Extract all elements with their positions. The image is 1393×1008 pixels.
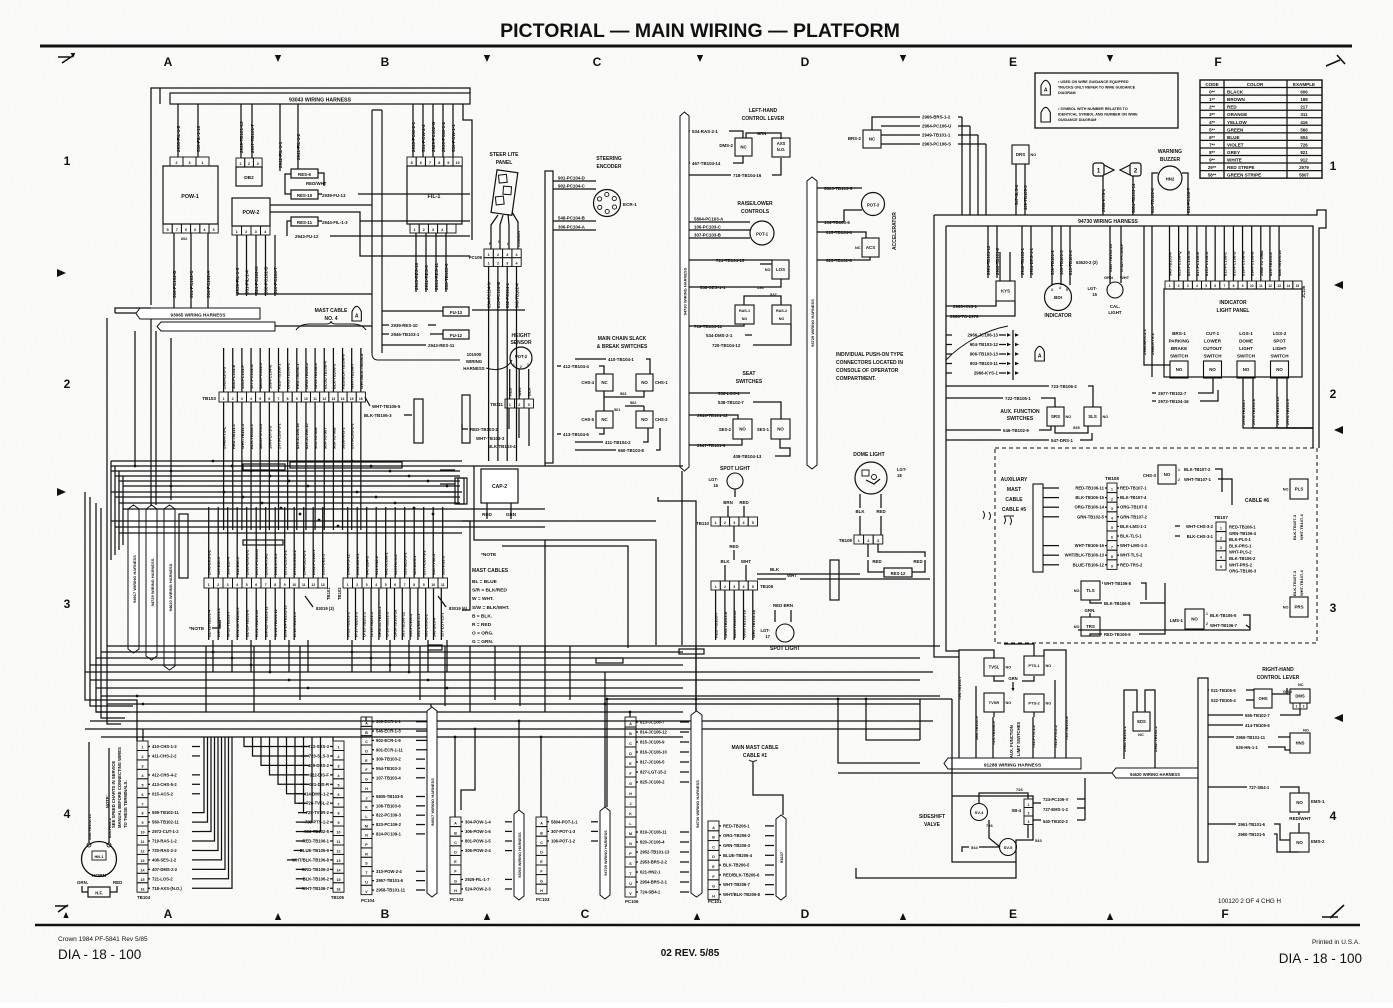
svg-text:CONSOLE OF OPERATOR: CONSOLE OF OPERATOR: [836, 368, 899, 374]
svg-text:H: H: [365, 787, 368, 791]
svg-text:WHT/BLK-TB106-8: WHT/BLK-TB106-8: [292, 857, 330, 862]
svg-text:827-LGT-15-2: 827-LGT-15-2: [640, 770, 667, 775]
svg-text:826-HNS-2: 826-HNS-2: [107, 817, 112, 838]
svg-text:8: 8: [338, 812, 340, 816]
switch PTS-1: [1024, 656, 1044, 675]
svg-text:15: 15: [337, 878, 341, 882]
svg-text:2: 2: [232, 397, 234, 401]
svg-text:GREEN: GREEN: [1227, 127, 1244, 132]
svg-text:2929-FIL-1-7: 2929-FIL-1-7: [465, 877, 490, 882]
svg-text:8: 8: [1111, 555, 1113, 559]
svg-text:Crown 1984 PF-5841 Rev 5/85: Crown 1984 PF-5841 Rev 5/85: [58, 936, 148, 943]
svg-text:9: 9: [338, 821, 340, 825]
svg-text:11: 11: [1259, 284, 1263, 288]
svg-text:3: 3: [432, 228, 434, 232]
svg-text:107-PC104-G: 107-PC104-G: [249, 364, 254, 389]
capacitor CAP-2: [481, 469, 518, 503]
svg-text:2977-TB102-7: 2977-TB102-7: [1158, 391, 1187, 396]
svg-text:NO: NO: [1276, 367, 1283, 372]
svg-text:10: 10: [337, 831, 341, 835]
svg-text:2961-TB101-12: 2961-TB101-12: [986, 245, 991, 275]
svg-text:2952-TB101-13: 2952-TB101-13: [640, 850, 670, 855]
svg-text:NO: NO: [739, 427, 746, 432]
svg-text:12: 12: [141, 850, 145, 854]
svg-text:9: 9: [1242, 284, 1244, 288]
svg-text:5805-TB103-5: 5805-TB103-5: [376, 794, 404, 799]
svg-text:16: 16: [337, 887, 341, 891]
harness 93637 vertical bar: [776, 815, 786, 900]
svg-text:RED-TRS-2: RED-TRS-2: [1120, 562, 1143, 567]
svg-text:RED-TB103-2: RED-TB103-2: [470, 427, 498, 432]
svg-text:NO: NO: [1006, 701, 1012, 705]
svg-text:B/W-24-TB201-13: B/W-24-TB201-13: [283, 604, 288, 637]
harness bar 94730 vertical: [680, 112, 689, 471]
svg-text:524-PC102-H: 524-PC102-H: [254, 266, 259, 294]
svg-text:2: 2: [724, 585, 726, 589]
svg-text:2: 2: [64, 377, 71, 391]
svg-text:MANUAL BEFORE CONNECTING WIRES: MANUAL BEFORE CONNECTING WIRES: [117, 747, 122, 828]
svg-text:548-PC104-B: 548-PC104-B: [558, 216, 585, 221]
svg-text:BLUE-TB106-9: BLUE-TB106-9: [300, 848, 330, 853]
svg-text:WHT-TB107-1: WHT-TB107-1: [1184, 477, 1212, 482]
inline capsule connectors on bus: [428, 645, 442, 650]
svg-text:94729 WIRING HARNESS: 94729 WIRING HARNESS: [604, 830, 608, 876]
svg-text:813-PC106-A: 813-PC106-A: [1204, 251, 1209, 276]
switch PTS-2: [1024, 694, 1044, 712]
terminal strip TB106: [711, 581, 720, 590]
svg-text:O-10-TB201-2: O-10-TB201-2: [361, 611, 366, 637]
svg-text:409-DRS-2: 409-DRS-2: [308, 763, 330, 768]
svg-text:NO: NO: [1046, 702, 1052, 706]
svg-text:NO: NO: [1176, 367, 1183, 372]
svg-text:NO: NO: [1283, 606, 1289, 610]
svg-text:YELLOW: YELLOW: [1227, 120, 1247, 125]
svg-text:CUTOUT: CUTOUT: [1203, 346, 1222, 351]
svg-text:2939-DB2-1: 2939-DB2-1: [321, 553, 326, 575]
svg-text:563: 563: [620, 392, 626, 396]
svg-text:R = RED: R = RED: [472, 622, 492, 628]
svg-text:VIOLET: VIOLET: [1227, 142, 1244, 147]
switch OHS: [1254, 689, 1272, 708]
svg-text:CONNECTORS LOCATED IN: CONNECTORS LOCATED IN: [836, 360, 903, 366]
svg-text:CABLE #6: CABLE #6: [1245, 498, 1269, 504]
POW-2 wires bottom: [236, 235, 238, 296]
svg-text:TLS: TLS: [1086, 588, 1094, 593]
svg-text:ORG-TB106-2: ORG-TB106-2: [286, 362, 291, 389]
svg-text:547-DRS-1: 547-DRS-1: [1051, 438, 1074, 443]
svg-text:DIA - 18 - 100: DIA - 18 - 100: [1279, 951, 1362, 966]
svg-text:GRN-11-TB201-2: GRN-11-TB201-2: [377, 606, 382, 637]
svg-text:BLK-TB106-5: BLK-TB106-5: [1210, 613, 1237, 618]
switch KYS: [996, 281, 1015, 301]
svg-text:RED-TB106-9: RED-TB106-9: [1104, 632, 1131, 637]
svg-text:H: H: [629, 792, 632, 796]
guidance triangle A mid: [1035, 346, 1044, 361]
svg-text:106-PC103-C: 106-PC103-C: [694, 225, 722, 230]
svg-text:PTS-2: PTS-2: [1028, 701, 1040, 706]
switch PLS: [1290, 479, 1308, 499]
svg-text:7: 7: [176, 228, 178, 232]
svg-text:B: B: [381, 907, 390, 921]
svg-text:309-ECR-1-1: 309-ECR-1-1: [376, 719, 401, 724]
pennant flag 2: [1130, 163, 1141, 176]
svg-text:94730 WIRING HARNESS: 94730 WIRING HARNESS: [682, 267, 687, 315]
harness bar 94729 vertical: [807, 177, 817, 469]
svg-text:5: 5: [1066, 288, 1068, 292]
svg-text:559-TB102-11: 559-TB102-11: [152, 810, 179, 815]
svg-text:1: 1: [1220, 527, 1222, 531]
svg-text:WIRING: WIRING: [466, 359, 483, 364]
svg-text:822-PC109-3: 822-PC109-3: [376, 813, 402, 818]
indicator panel wires: [1169, 226, 1171, 281]
wire color code table: [1200, 80, 1322, 178]
svg-text:2: 2: [867, 539, 869, 543]
svg-text:AXS: AXS: [777, 141, 786, 146]
svg-text:NC: NC: [601, 417, 608, 422]
svg-text:5: 5: [259, 397, 261, 401]
svg-text:BRS-1: BRS-1: [1172, 331, 1186, 336]
svg-text:BLACK: BLACK: [1227, 90, 1244, 95]
svg-text:29**: 29**: [1208, 165, 1217, 170]
svg-text:2949-TB101-1: 2949-TB101-1: [922, 133, 951, 138]
svg-text:2: 2: [217, 583, 219, 587]
svg-text:RED BRN: RED BRN: [773, 603, 793, 608]
svg-text:629-JC106-14: 629-JC106-14: [295, 423, 300, 449]
svg-text:BLUE: BLUE: [1227, 135, 1240, 140]
svg-text:1: 1: [1206, 612, 1208, 616]
svg-text:2964-PC106-U: 2964-PC106-U: [922, 124, 951, 129]
svg-text:539-TB101-2: 539-TB101-2: [1050, 250, 1055, 275]
svg-text:904-TO-907: 904-TO-907: [322, 427, 327, 449]
svg-text:NC: NC: [869, 137, 876, 142]
svg-text:*NOTE: *NOTE: [481, 552, 497, 558]
svg-text:3: 3: [1330, 601, 1337, 615]
svg-text:TB106: TB106: [760, 584, 774, 589]
svg-text:557-LGT-15-1: 557-LGT-15-1: [439, 612, 444, 637]
svg-text:CAP-2: CAP-2: [492, 484, 507, 490]
svg-text:602: 602: [181, 237, 187, 241]
svg-text:& BREAK SWITCHES: & BREAK SWITCHES: [597, 344, 648, 350]
svg-text:731-PTS-2-2: 731-PTS-2-2: [1053, 724, 1058, 748]
svg-text:531-FIL-1-4: 531-FIL-1-4: [245, 270, 250, 294]
svg-text:C: C: [593, 55, 602, 69]
svg-text:HNS: HNS: [1296, 741, 1305, 746]
svg-text:EMS-1: EMS-1: [1311, 799, 1325, 804]
svg-text:BLK-TB106-2: BLK-TB106-2: [303, 876, 330, 881]
svg-text:94620 WIRING HARNESS: 94620 WIRING HARNESS: [1130, 772, 1180, 777]
corner mark bottom-right: [1322, 905, 1344, 918]
svg-text:STEER LITE: STEER LITE: [490, 152, 520, 158]
svg-text:NC: NC: [1138, 733, 1144, 737]
svg-text:G: G: [365, 778, 368, 782]
fuse FU-13: [443, 307, 469, 316]
svg-text:825-JC106-2: 825-JC106-2: [640, 780, 665, 785]
DB2 wires: [240, 104, 242, 158]
svg-text:015-ACS-2: 015-ACS-2: [152, 791, 174, 796]
switch CHS-2: [636, 411, 653, 428]
svg-text:PTS-1: PTS-1: [1028, 663, 1040, 668]
svg-text:TB101: TB101: [326, 587, 331, 600]
svg-text:SWITCH: SWITCH: [1170, 354, 1189, 359]
svg-text:63620-2 (2): 63620-2 (2): [1076, 260, 1098, 265]
svg-text:LOWER: LOWER: [1204, 339, 1222, 344]
svg-text:2979-LGS-2-1: 2979-LGS-2-1: [350, 423, 355, 449]
svg-text:COMMON: COMMON: [517, 231, 521, 247]
grid tick arrows top: [275, 55, 281, 62]
svg-text:C: C: [629, 742, 632, 746]
svg-text:CAL.: CAL.: [1110, 304, 1120, 309]
harness 93043: [170, 93, 470, 104]
svg-text:2962-PC106-V: 2962-PC106-V: [311, 549, 316, 575]
svg-text:NC: NC: [1298, 683, 1304, 687]
svg-text:801-POW-1-5: 801-POW-1-5: [465, 839, 491, 844]
svg-text:SRS: SRS: [1051, 414, 1060, 419]
svg-text:10: 10: [304, 397, 308, 401]
svg-text:DOME LIGHT: DOME LIGHT: [853, 452, 884, 458]
svg-text:H: H: [540, 889, 543, 893]
svg-text:ORG-TB106-3: ORG-TB106-3: [302, 867, 330, 872]
svg-text:3: 3: [64, 597, 71, 611]
svg-text:416: 416: [1300, 120, 1308, 125]
svg-text:GRN-TB206-3: GRN-TB206-3: [313, 362, 318, 389]
svg-text:1: 1: [1296, 705, 1298, 709]
svg-text:RAS-2: RAS-2: [776, 309, 787, 313]
connector bar right of TB103: [414, 399, 423, 443]
svg-text:5: 5: [385, 583, 387, 587]
svg-text:DMS-2: DMS-2: [719, 143, 733, 148]
svg-text:2972-TB104-16: 2972-TB104-16: [1158, 399, 1189, 404]
svg-text:BLK-PLS-1: BLK-PLS-1: [1229, 537, 1252, 542]
svg-text:2946-FU-12: 2946-FU-12: [346, 553, 351, 575]
svg-text:641-TB102-4: 641-TB102-4: [1150, 188, 1155, 213]
switch SES-1: [771, 419, 790, 439]
svg-text:903-TB103-11: 903-TB103-11: [970, 361, 999, 366]
svg-text:604: 604: [1300, 135, 1308, 140]
svg-text:ECR-1: ECR-1: [623, 202, 637, 207]
svg-text:2946-TB103-1: 2946-TB103-1: [1020, 247, 1025, 275]
svg-text:GRN-TB107-2: GRN-TB107-2: [1120, 514, 1148, 519]
svg-text:5804-POT-1-1: 5804-POT-1-1: [551, 819, 578, 824]
trunk elbow: [371, 300, 373, 353]
svg-text:2974-LGS-2-2: 2974-LGS-2-2: [292, 549, 297, 575]
guidance triangle A mast: [352, 306, 361, 321]
small bars left of CAP-2: [455, 478, 464, 504]
svg-text:5: 5: [1111, 526, 1113, 530]
svg-text:M: M: [365, 824, 368, 828]
svg-text:RED/WHT: RED/WHT: [1289, 816, 1311, 821]
harness 94729 vertical bar bottom: [600, 807, 610, 899]
svg-text:3: 3: [227, 583, 229, 587]
svg-text:GRN.: GRN.: [1085, 608, 1096, 613]
svg-text:DMS: DMS: [1295, 694, 1305, 699]
svg-text:SEAT: SEAT: [743, 371, 756, 377]
svg-text:621-HN2-1: 621-HN2-1: [640, 870, 661, 875]
svg-text:• SYMBOL WITH NUMBER RELATES: • SYMBOL WITH NUMBER RELATES TO: [1058, 107, 1128, 111]
svg-text:727-EMS-1-2: 727-EMS-1-2: [1043, 807, 1069, 812]
svg-text:HARNESS: HARNESS: [463, 366, 485, 371]
margin arrows: [57, 269, 66, 277]
svg-text:3: 3: [1220, 546, 1222, 550]
svg-text:WHT-TB103-3: WHT-TB103-3: [476, 436, 505, 441]
svg-text:G: G: [629, 782, 632, 786]
grid tick arrows bottom: [275, 913, 281, 920]
svg-text:• USED ON WIRE GUIDANCE EQUIP: • USED ON WIRE GUIDANCE EQUIPPED: [1058, 80, 1129, 84]
svg-text:9: 9: [423, 583, 425, 587]
svg-text:634-PC104-N: 634-PC104-N: [487, 282, 492, 308]
svg-text:533-TB103-6: 533-TB103-6: [444, 263, 449, 290]
svg-text:RED: RED: [508, 387, 513, 396]
svg-text:4: 4: [338, 774, 340, 778]
svg-text:NO: NO: [1031, 153, 1037, 157]
svg-text:540-TB102-3: 540-TB102-3: [1043, 819, 1068, 824]
svg-text:E: E: [1009, 907, 1017, 921]
svg-text:641-HN2-2: 641-HN2-2: [374, 555, 379, 575]
potentiometer POT-3: [862, 193, 885, 216]
harness bar blank below: [157, 322, 275, 331]
svg-text:HORN: HORN: [92, 873, 107, 879]
svg-text:HN2: HN2: [1166, 177, 1175, 182]
svg-text:SIDESHIFT: SIDESHIFT: [919, 814, 945, 820]
svg-text:2: 2: [1303, 705, 1305, 709]
svg-text:LGS-2: LGS-2: [1273, 331, 1287, 336]
svg-text:2946-KYS-L: 2946-KYS-L: [222, 426, 227, 449]
svg-text:2: 2: [142, 755, 144, 759]
svg-text:NO: NO: [1074, 589, 1080, 593]
svg-text:BLK: BLK: [770, 567, 780, 572]
svg-text:RED-TB206-1: RED-TB206-1: [723, 823, 750, 828]
svg-text:726: 726: [986, 823, 993, 828]
switch TVSL: [984, 658, 1004, 676]
connector PC102: [450, 817, 461, 827]
svg-text:7: 7: [1223, 284, 1225, 288]
svg-text:O = ORG.: O = ORG.: [472, 631, 493, 637]
svg-text:7: 7: [278, 397, 280, 401]
svg-text:94730 WIRING HARNESS: 94730 WIRING HARNESS: [695, 780, 700, 828]
svg-text:NO: NO: [1103, 415, 1109, 419]
svg-text:NO: NO: [1046, 664, 1052, 668]
svg-text:2: 2: [497, 253, 499, 257]
svg-text:14: 14: [337, 868, 341, 872]
svg-text:BROWN: BROWN: [1227, 97, 1246, 102]
svg-text:2: 2: [1178, 284, 1180, 288]
POW-1 wires bottom: [173, 233, 175, 308]
svg-text:OHS: OHS: [1258, 696, 1267, 701]
svg-text:1: 1: [208, 583, 210, 587]
svg-text:726: 726: [1300, 142, 1308, 147]
horn riser wires: [88, 742, 90, 843]
svg-text:BRAKE: BRAKE: [1171, 346, 1187, 351]
svg-text:NO: NO: [1074, 625, 1080, 629]
svg-text:INDICATOR: INDICATOR: [1219, 300, 1247, 306]
svg-text:1: 1: [488, 261, 490, 265]
svg-text:EXAMPLE: EXAMPLE: [1293, 82, 1315, 87]
svg-text:1: 1: [347, 583, 349, 587]
svg-text:3: 3: [213, 228, 215, 232]
svg-text:POW-2: POW-2: [243, 210, 260, 216]
svg-text:5804-TB103-14: 5804-TB103-14: [1131, 183, 1136, 213]
svg-text:562: 562: [630, 401, 636, 405]
svg-text:SB-4: SB-4: [1011, 808, 1021, 813]
horn HN-1: [82, 842, 117, 877]
svg-text:309-TB103-2: 309-TB103-2: [376, 757, 401, 762]
switch HNS: [1290, 733, 1310, 753]
svg-text:TB105: TB105: [331, 895, 345, 900]
svg-text:93637: 93637: [779, 851, 784, 863]
svg-text:PICTORIAL — MAIN WIRING — PLAT: PICTORIAL — MAIN WIRING — PLATFORM: [500, 20, 900, 42]
svg-text:NC: NC: [855, 246, 861, 250]
svg-text:D: D: [801, 907, 810, 921]
resistor RES-11: [291, 217, 318, 226]
svg-text:2: 2: [338, 755, 340, 759]
svg-text:BLUE-TB206-4: BLUE-TB206-4: [322, 360, 327, 389]
power panel POW-2: [232, 198, 270, 226]
svg-text:B: B: [454, 831, 457, 835]
svg-text:022-DIS-F: 022-DIS-F: [310, 772, 330, 777]
svg-text:LIMIT SWITCHES: LIMIT SWITCHES: [1016, 722, 1021, 756]
svg-text:NO: NO: [765, 268, 771, 272]
svg-text:8: 8: [411, 161, 413, 165]
svg-text:PC104: PC104: [361, 898, 375, 903]
svg-text:RES-6: RES-6: [298, 172, 311, 177]
svg-text:718-TB104-16: 718-TB104-16: [733, 173, 762, 178]
svg-text:PARKING: PARKING: [1169, 339, 1190, 344]
svg-text:11: 11: [337, 840, 341, 844]
routing wires around note block: [474, 466, 545, 652]
svg-text:C: C: [712, 845, 715, 849]
svg-text:94730 WIRING HARNESS: 94730 WIRING HARNESS: [1078, 219, 1138, 225]
svg-text:EMS-2: EMS-2: [1311, 839, 1325, 844]
TB101 wires bottom rotated: [208, 588, 210, 640]
svg-text:814-JC106-12: 814-JC106-12: [640, 730, 667, 735]
svg-text:9: 9: [296, 397, 298, 401]
svg-text:2960-EMS-2-2: 2960-EMS-2-2: [245, 549, 250, 575]
svg-text:TB110: TB110: [696, 521, 709, 526]
svg-text:CUT-1: CUT-1: [1206, 331, 1220, 336]
svg-text:13: 13: [337, 859, 341, 863]
svg-text:3: 3: [877, 539, 879, 543]
svg-text:02 REV. 5/85: 02 REV. 5/85: [661, 948, 720, 959]
svg-text:2936-POW-1-2: 2936-POW-1-2: [441, 121, 446, 152]
svg-text:104-POT-3-3: 104-POT-3-3: [267, 425, 272, 449]
svg-text:L: L: [507, 242, 509, 246]
svg-text:H: H: [454, 889, 457, 893]
svg-text:546-TB102-9: 546-TB102-9: [1003, 428, 1029, 433]
svg-text:3: 3: [366, 583, 368, 587]
svg-text:B = BLK.: B = BLK.: [472, 613, 492, 619]
svg-text:727-SB4-1: 727-SB4-1: [1249, 785, 1270, 790]
svg-text:NO: NO: [1283, 488, 1289, 492]
terminal strip TB102: [343, 578, 353, 588]
svg-text:MAST CABLES: MAST CABLES: [472, 568, 509, 574]
svg-text:BLK-LMS-1-1: BLK-LMS-1-1: [1120, 524, 1147, 529]
svg-text:KYS: KYS: [1001, 289, 1010, 294]
svg-text:EDS: EDS: [1137, 719, 1146, 724]
svg-text:WHT/BLK-TB106-13: WHT/BLK-TB106-13: [1065, 553, 1105, 558]
svg-text:555-TB102-7: 555-TB102-7: [1245, 713, 1270, 718]
svg-text:RED: RED: [739, 500, 748, 505]
svg-text:N: N: [365, 834, 368, 838]
svg-text:408-TB104-13: 408-TB104-13: [733, 454, 762, 459]
svg-text:531-POW-2-2: 531-POW-2-2: [421, 124, 426, 152]
pennant flag 1: [1093, 163, 1104, 176]
svg-text:94729 WIRING HARNESS: 94729 WIRING HARNESS: [810, 299, 815, 347]
svg-text:BLK-TB107-3: BLK-TB107-3: [1292, 514, 1297, 540]
svg-text:726-TB105-7: 726-TB105-7: [957, 676, 962, 700]
wire trunk center top: [371, 110, 373, 300]
TB102 wires top rotated: [347, 507, 349, 578]
svg-text:414-TB105-6: 414-TB105-6: [1245, 723, 1270, 728]
svg-text:NC: NC: [740, 145, 747, 150]
